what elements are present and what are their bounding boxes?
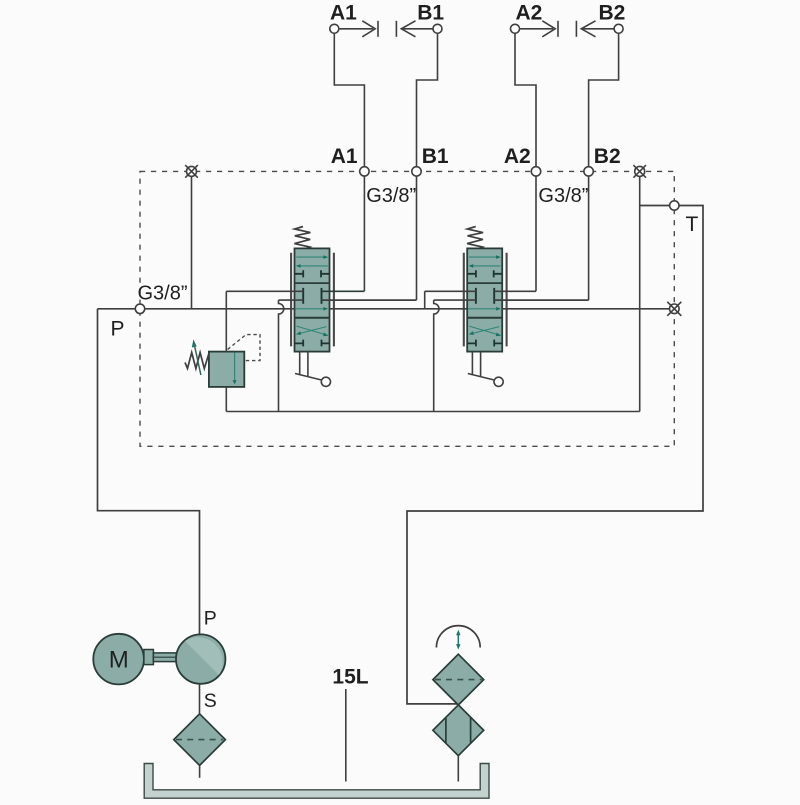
port T outlet — [670, 201, 679, 210]
section3 cross arrows V1 — [297, 326, 328, 335]
wire return filter to tank — [457, 756, 459, 782]
section1 arrows V2 — [469, 256, 497, 258]
wire A1 riser — [334, 33, 364, 291]
spring V1 — [294, 227, 310, 249]
motor M1 — [93, 634, 144, 685]
tank level mark — [345, 689, 347, 782]
svg-text:P: P — [111, 318, 125, 341]
rails V1 — [290, 253, 292, 347]
quick coupler B2 — [576, 21, 623, 37]
svg-text:B1: B1 — [422, 145, 449, 168]
return filter upper F2 — [433, 654, 484, 705]
port A2 — [531, 167, 540, 176]
port B2 — [584, 167, 593, 176]
section3 cross arrows V2 — [469, 326, 500, 335]
tank reservoir — [144, 764, 489, 799]
svg-text:B2: B2 — [594, 145, 621, 168]
svg-text:15L: 15L — [332, 666, 368, 689]
wire pump to filter — [199, 684, 201, 714]
wire filter to tank — [199, 765, 201, 777]
quick coupler A2 — [511, 21, 559, 37]
wire P supply line — [98, 308, 670, 310]
wire B2 riser — [589, 33, 619, 300]
wire test point drop — [191, 171, 193, 308]
svg-text:G3/8”: G3/8” — [138, 283, 188, 305]
section3 blocked ports V1 — [295, 340, 330, 347]
section2 port bars V2 — [476, 288, 494, 304]
port B1 — [412, 167, 421, 176]
svg-text:A1: A1 — [330, 2, 357, 25]
valve V1 — [291, 227, 334, 387]
body V1 — [295, 248, 330, 351]
wire valve1 left tank stub with hop — [279, 300, 304, 411]
plugged carryover port X3 — [667, 302, 681, 316]
valve V2 — [464, 227, 507, 387]
svg-text:A2: A2 — [504, 145, 531, 168]
wire valve2 right stub B — [494, 299, 588, 301]
suction filter F1 — [174, 714, 226, 766]
section2 power passage V2 — [468, 308, 496, 310]
svg-text:B1: B1 — [417, 2, 444, 25]
body V2 — [467, 248, 502, 351]
wire valve1 right stub A — [322, 290, 365, 292]
actuator lever V2 — [468, 352, 494, 380]
svg-text:A1: A1 — [331, 145, 358, 168]
wire valve2 supply stub — [425, 291, 476, 309]
wire tank collector — [226, 171, 639, 411]
wire relief branch — [226, 291, 303, 411]
return filter lower F3 — [433, 705, 484, 756]
wire valve2 left tank stub with hop — [434, 300, 476, 411]
wire valve1 right stub B — [322, 299, 417, 301]
quick coupler A1 — [330, 21, 378, 37]
wire T line to port — [407, 206, 703, 704]
rails V2 — [463, 253, 465, 347]
svg-text:G3/8”: G3/8” — [538, 185, 588, 207]
pump highlight — [185, 637, 223, 675]
wire B1 riser — [417, 33, 438, 300]
svg-text:S: S — [204, 690, 217, 712]
wire P drop to pump — [98, 309, 200, 635]
wire A2 riser — [515, 33, 536, 291]
svg-text:A2: A2 — [516, 2, 543, 25]
filter element F1 — [176, 739, 223, 741]
test point X2 — [633, 165, 646, 178]
section1 arrows V1 — [296, 256, 324, 258]
section3 blocked ports V2 — [467, 340, 502, 347]
dashed enclosure box — [140, 171, 674, 446]
svg-text:M: M — [109, 647, 129, 674]
bypass arrow — [456, 630, 460, 650]
rotation arc return filter — [436, 626, 480, 648]
relief valve RV1 — [185, 335, 260, 387]
svg-text:T: T — [686, 213, 699, 236]
section1 blocked ports V2 — [467, 270, 502, 277]
svg-text:B2: B2 — [599, 2, 626, 25]
coupling — [144, 650, 154, 665]
section2 power passage V1 — [295, 308, 323, 310]
pump PU1 — [176, 634, 225, 683]
port P inlet — [135, 304, 144, 313]
filter element F2 — [435, 679, 482, 681]
test point X1 — [185, 165, 198, 178]
wire valve2 right stub A — [494, 290, 536, 292]
section2 port bars V1 — [303, 288, 321, 304]
port A1 — [360, 167, 369, 176]
svg-text:P: P — [204, 608, 217, 630]
spring V2 — [467, 227, 483, 249]
actuator lever V1 — [295, 352, 321, 380]
filter element bars F3 — [446, 718, 471, 743]
svg-text:G3/8”: G3/8” — [366, 185, 416, 207]
quick coupler B1 — [396, 21, 442, 37]
section1 blocked ports V1 — [295, 270, 330, 277]
shaft — [153, 653, 176, 662]
